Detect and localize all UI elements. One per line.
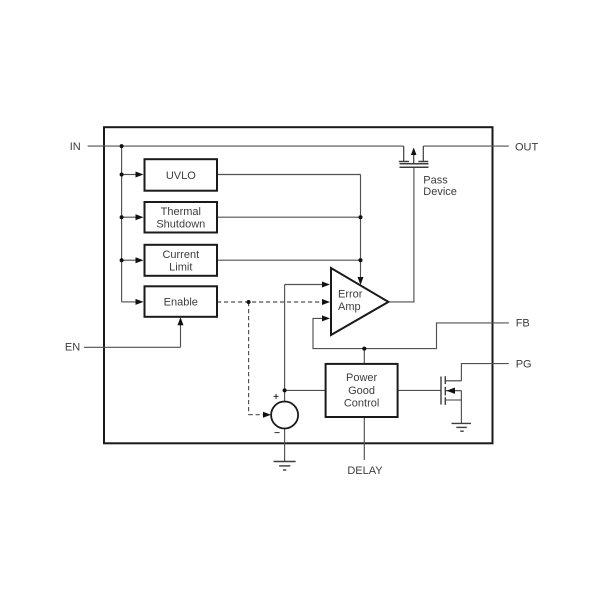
svg-text:Good: Good — [348, 385, 375, 397]
svg-text:UVLO: UVLO — [166, 170, 196, 182]
svg-text:Error: Error — [338, 289, 363, 301]
svg-text:Amp: Amp — [338, 301, 361, 313]
svg-text:Device: Device — [423, 186, 457, 198]
svg-text:Pass: Pass — [423, 174, 448, 186]
svg-text:PG: PG — [516, 358, 532, 370]
svg-text:EN: EN — [65, 342, 80, 354]
svg-text:Shutdown: Shutdown — [156, 218, 205, 230]
svg-text:Enable: Enable — [164, 297, 198, 309]
svg-text:IN: IN — [70, 141, 81, 153]
svg-text:Control: Control — [344, 397, 379, 409]
svg-text:Thermal: Thermal — [161, 206, 201, 218]
svg-text:−: − — [274, 428, 280, 439]
svg-text:OUT: OUT — [515, 142, 539, 154]
svg-text:Power: Power — [346, 372, 378, 384]
svg-text:DELAY: DELAY — [347, 465, 383, 477]
svg-text:Limit: Limit — [169, 262, 192, 274]
svg-text:Current: Current — [162, 249, 199, 261]
svg-text:+: + — [273, 392, 279, 403]
svg-text:FB: FB — [516, 318, 530, 330]
